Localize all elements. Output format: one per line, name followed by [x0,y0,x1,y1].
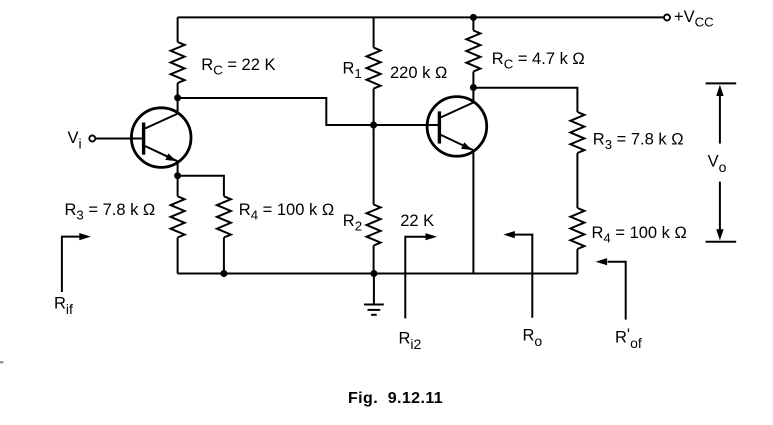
svg-text:R3 = 7.8 k Ω: R3 = 7.8 k Ω [593,130,684,152]
svg-text:Vo: Vo [708,152,727,175]
wire: Vi to Q1 base [95,138,143,140]
resistor R4 left 100 k [178,176,224,197]
node: R4 left / ground rail junction [220,270,227,277]
svg-text:R4 = 100 k Ω: R4 = 100 k Ω [592,224,687,246]
node: Q2 collector junction [470,84,477,91]
svg-text:Ro: Ro [523,327,543,350]
svg-text:RC = 22 K: RC = 22 K [201,56,275,78]
Ro arrow [503,231,532,318]
svg-text:RC = 4.7 k Ω: RC = 4.7 k Ω [492,50,585,72]
resistor R3 left 7.8 k [177,176,179,197]
transistor Q1 [131,98,191,176]
svg-text:Rif: Rif [54,295,73,318]
svg-text:220 k Ω: 220 k Ω [390,64,447,82]
node: Q1 emitter junction [174,172,181,179]
svg-text:+VCC: +VCC [674,8,714,30]
page artifact dash [0,361,4,364]
transistor Q2 [427,88,487,274]
Ri2 arrow [405,233,437,318]
resistor Rc1 22 K [177,17,179,42]
+Vcc terminal [664,15,670,21]
svg-text:R'of: R'of [615,326,642,351]
wire: Q1 collector to Q2 base net [178,98,438,125]
svg-text:Ri2: Ri2 [399,330,422,353]
R'of arrow [596,258,626,320]
Rif arrow [62,233,91,292]
resistor R1 220 k [373,17,375,47]
resistor Rc2 4.7 k [472,17,474,30]
svg-text:R3 = 7.8 k Ω: R3 = 7.8 k Ω [65,201,156,223]
wire: Q2 collector to output divider [473,88,577,112]
svg-text:R4 = 100 k Ω: R4 = 100 k Ω [239,201,334,223]
node: supply rail / Rc2 junction [470,14,477,21]
svg-text:Fig. 9.12.11: Fig. 9.12.11 [348,390,443,407]
node: R2 / ground junction [370,270,377,277]
ground [364,274,384,315]
wire: between R3 right and R4 right [576,153,578,208]
Vi input terminal [89,136,95,142]
node: Q1 collector junction [174,94,181,101]
wire: +Vcc supply rail [178,16,664,18]
svg-text:R2: R2 [343,212,362,234]
Vo measurement arrows [706,83,737,241]
svg-text:R1: R1 [343,59,362,81]
node: R1/R2/Q2-base junction [370,122,377,129]
svg-text:22 K: 22 K [400,212,434,230]
svg-text:Vi: Vi [68,129,82,152]
resistor R3 right 7.8 k [570,112,584,153]
wire: ground rail [178,273,578,275]
resistor R2 [373,125,375,205]
resistor R4 right 100 k [570,208,584,249]
